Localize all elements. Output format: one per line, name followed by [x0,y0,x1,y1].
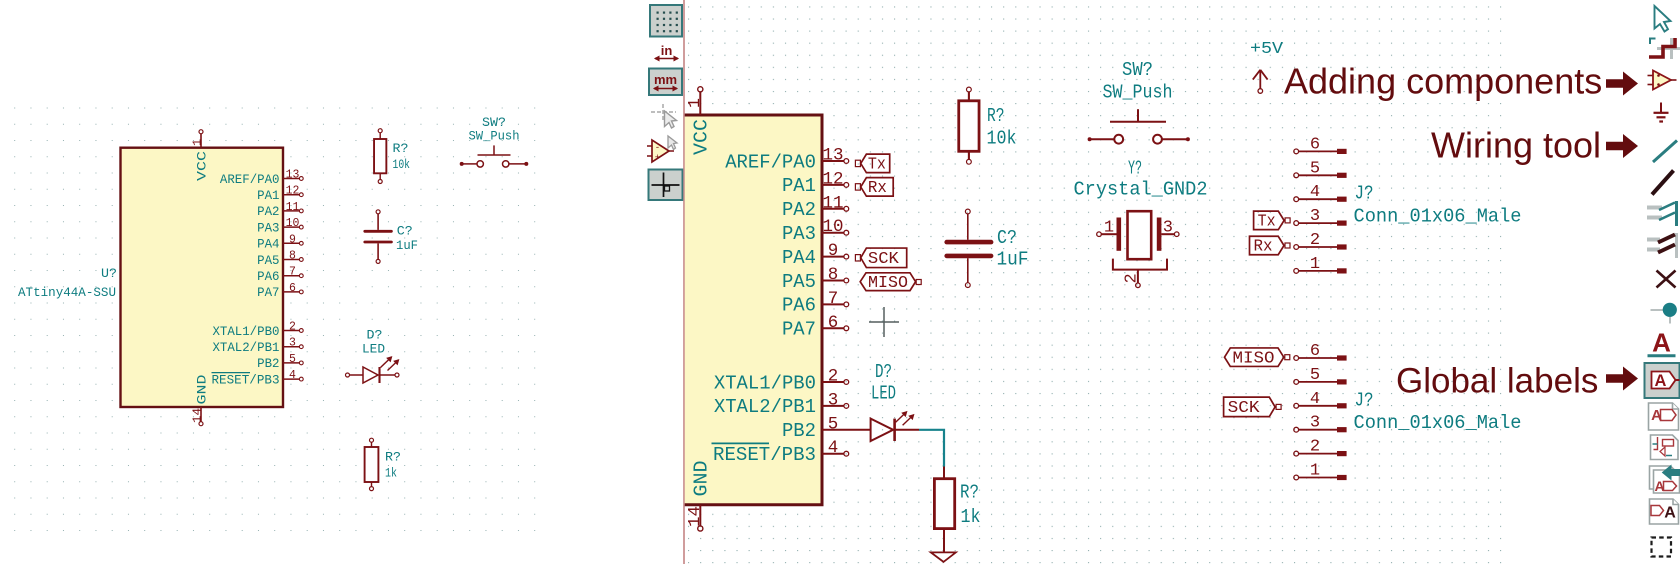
svg-text:Conn_01x06_Male: Conn_01x06_Male [1354,412,1522,434]
svg-text:10k: 10k [393,157,411,172]
resistor R? 1k body (right view) [934,479,954,529]
svg-text:5: 5 [1310,366,1320,385]
global label Tx (at U? pin 13) [855,160,860,166]
J? (top) pin 2 [1294,245,1299,250]
U? pin 4 RESET/PB3 (right view) [822,453,844,455]
svg-text:14: 14 [190,408,204,423]
svg-text:3: 3 [1310,207,1320,226]
global label SCK (at J? bottom pin 4) [1224,397,1276,417]
resistor R? 10k (right view) body [959,101,979,152]
IC U? ATtiny44A-SSU body (left view) [121,148,284,407]
toolbar icon: place bus [1652,171,1674,195]
svg-text:4: 4 [1310,183,1320,202]
svg-text:1: 1 [1104,219,1114,238]
toolbar icon: no connect flag [1657,271,1676,288]
svg-text:XTAL2/PB1: XTAL2/PB1 [714,396,816,418]
U? pin 12 PA1 (right view) [822,184,844,186]
LED D? triangle [871,419,894,441]
power symbol +5V [1258,89,1263,94]
svg-text:Wiring tool: Wiring tool [1431,125,1601,166]
crystal Y? Crystal_GND2 body [1128,211,1152,259]
U? pin 8 PA5 (right view) [822,280,844,282]
svg-text:R?: R? [960,482,979,504]
Y? pin 3 [1161,233,1174,235]
toolbar icon: place sheet pin [1650,499,1679,524]
SW? actuator [478,154,511,156]
svg-text:Tx: Tx [1258,213,1276,232]
capacitor C? 1uF (left view) bottom pin [377,243,379,259]
origin marker cross [869,321,899,323]
toolbar icon: cursor arrow [1655,6,1671,32]
svg-text:PA6: PA6 [782,295,816,317]
LED D? (left view) triangle [363,367,378,383]
toolbar icon: bus to bus entry [1647,238,1660,242]
svg-text:PA3: PA3 [257,220,279,235]
U? pin 10 PA3 (right view) [822,232,844,234]
svg-text:1: 1 [1310,462,1320,481]
Y? pin 2 [1137,270,1139,283]
svg-text:RESET/PB3: RESET/PB3 [713,444,816,466]
svg-text:SCK: SCK [1228,399,1261,418]
svg-text:8: 8 [289,250,296,263]
svg-text:3: 3 [1310,414,1320,433]
capacitor C? 1uF (right view) bottom pin [967,258,969,283]
svg-text:A: A [1664,505,1676,522]
R? 1k top pin (right view) [943,467,945,479]
global label Rx (at U? pin 12) [855,184,860,190]
resistor R? 10k (right view) bottom pin [968,151,970,159]
global label Rx (at J? top pin 2) [1250,236,1285,255]
svg-text:GND: GND [691,461,713,497]
svg-text:SW_Push: SW_Push [1103,82,1173,104]
LED D? anode lead [847,429,871,431]
svg-text:1k: 1k [385,466,397,481]
annotation arrow (adding components) [1606,72,1638,96]
svg-text:ATtiny44A-SSU: ATtiny44A-SSU [18,285,116,300]
U? pin 11 PA2 (left view) [283,210,300,212]
U? pin 7 PA6 (left view) [283,275,300,277]
svg-text:PA2: PA2 [257,204,279,219]
svg-text:D?: D? [875,361,892,383]
right canvas grid [686,0,1506,564]
toolbar icon: place symbol [1648,75,1654,77]
capacitor C? 1uF (left view) top pin [377,214,379,230]
svg-text:J?: J? [1355,390,1374,412]
svg-text:5: 5 [828,414,839,434]
svg-text:4: 4 [1310,390,1320,409]
svg-text:SCK: SCK [868,250,900,269]
svg-text:PA7: PA7 [782,319,816,341]
annotation arrow (global labels) [1606,367,1638,391]
J? (bottom) pin 3 [1294,427,1299,432]
svg-text:6: 6 [289,282,296,295]
toolbar icon: hierarchical label [1649,403,1679,430]
svg-text:4: 4 [828,438,839,458]
U? pin 1 VCC (right view) [698,87,703,92]
svg-text:VCC: VCC [195,151,210,181]
svg-text:Crystal_GND2: Crystal_GND2 [1074,179,1208,201]
svg-text:AREF/PA0: AREF/PA0 [220,172,280,187]
svg-text:PA7: PA7 [257,285,279,300]
resistor R? 10k (right view) top pin [968,92,970,101]
svg-text:6: 6 [828,313,839,333]
LED D? cathode bar [893,419,896,441]
svg-text:1k: 1k [961,506,981,528]
svg-text:2: 2 [1123,273,1142,283]
capacitor C? 1uF (right view) plates [947,240,991,245]
SW? right left contact [1114,135,1123,144]
svg-text:7: 7 [289,266,296,279]
U? pin 14 GND (left view) [199,422,203,426]
svg-text:2: 2 [289,321,296,334]
Y? right electrode [1157,218,1162,251]
U? pin 2 XTAL1/PB0 (left view) [283,330,300,332]
SW? left lead [460,162,463,165]
svg-text:-: - [655,143,660,153]
svg-text:1: 1 [1310,255,1320,274]
svg-text:PB2: PB2 [257,356,279,371]
J? (bottom) pin 5 [1294,380,1299,385]
J? (top) pin 4 [1294,197,1299,202]
svg-text:10: 10 [286,217,300,230]
svg-text:AREF/PA0: AREF/PA0 [725,151,816,173]
left schematic grid [6,100,536,538]
U? pin 11 PA2 (right view) [822,208,844,210]
svg-text:D?: D? [367,328,383,343]
svg-text:A: A [1655,372,1667,390]
U? pin 3 XTAL2/PB1 (left view) [283,346,300,348]
J? (bottom) pin 4 [1294,403,1299,408]
svg-text:2: 2 [828,367,839,387]
svg-text:1: 1 [190,139,204,146]
svg-text:GND: GND [195,374,210,404]
svg-text:in: in [661,43,673,58]
svg-text:Global labels: Global labels [1396,362,1598,401]
resistor R? 1k (left view) bottom pin [371,482,373,487]
canvas left border [683,0,685,564]
svg-text:PA4: PA4 [257,237,280,252]
toolbar icon: cursor shape [662,104,664,121]
svg-text:R?: R? [987,105,1005,127]
global label Tx (at J? top pin 3) [1254,211,1285,230]
svg-text:Y?: Y? [1128,158,1142,180]
svg-text:C?: C? [997,227,1017,249]
U? pin 6 PA7 (left view) [283,291,300,293]
SW? right actuator [1110,121,1166,123]
toolbar icon: import hierarchical sheet pin [1650,466,1676,489]
svg-text:U?: U? [101,266,117,281]
capacitor C? 1uF (right view) top pin [967,214,969,240]
toolbar icon: place wire [1653,141,1677,163]
svg-text:8: 8 [828,265,839,285]
resistor R? 1k (left view) top pin [371,442,373,447]
svg-text:+5V: +5V [1250,39,1283,58]
toolbar icon: wire to bus entry [1647,206,1662,210]
Y? case bracket [1113,259,1167,270]
svg-text:Tx: Tx [868,156,886,175]
svg-text:XTAL2/PB1: XTAL2/PB1 [212,340,279,355]
SW? left contact [477,161,483,167]
LED D? cathode lead [895,429,919,431]
U? pin 14 GND (right view) [698,526,703,531]
J? (top) pin 5 [1294,173,1299,178]
svg-text:SW?: SW? [1122,59,1153,81]
svg-text:PA4: PA4 [782,247,816,269]
svg-text:A: A [1652,328,1671,358]
U? pin 1 VCC (left view) [199,130,203,134]
svg-text:11: 11 [286,201,300,214]
SW? right right lead [1162,138,1188,140]
canvas left border overlay [683,0,685,564]
Y? pin 1 [1101,233,1116,235]
U? pin 13 AREF/PA0 (right view) [822,160,844,162]
Y? left electrode [1117,218,1122,251]
svg-text:12: 12 [286,185,300,198]
LED D? (left view) cathode bar [378,367,380,383]
svg-text:1uF: 1uF [396,238,418,253]
svg-text:MISO: MISO [1233,349,1275,368]
J? (top) pin 6 [1294,149,1299,154]
svg-text:R?: R? [385,450,401,465]
svg-text:13: 13 [286,169,300,182]
svg-text:PA2: PA2 [782,199,816,221]
svg-text:10k: 10k [987,128,1017,150]
svg-text:3: 3 [1163,219,1173,238]
toolbar button: global label (selected) [1645,363,1680,398]
toolbar icon: place symbol [647,145,652,147]
U? pin 4 RESET/PB3 (left view) [283,378,300,380]
SW? right lead [509,163,526,165]
svg-text:RESET/PB3: RESET/PB3 [212,372,280,387]
IC U? ATtiny44A-SSU body (right view) [684,115,822,505]
U? pin 8 PA5 (left view) [283,259,300,261]
J? (bottom) pin 1 [1294,475,1299,480]
svg-text:3: 3 [828,390,839,410]
U? pin 9 PA4 (right view) [822,256,844,258]
toolbar button: grid [650,5,682,37]
svg-text:9: 9 [289,233,296,246]
svg-text:3: 3 [289,337,296,350]
U? pin 2 XTAL1/PB0 (right view) [822,381,844,383]
svg-text:XTAL1/PB0: XTAL1/PB0 [714,372,816,394]
ground symbol GND [931,552,956,562]
svg-text:2: 2 [1310,438,1320,457]
U? pin 6 PA7 (right view) [822,327,844,329]
svg-text:VCC: VCC [691,119,713,155]
svg-text:13: 13 [822,146,843,166]
svg-text:PA6: PA6 [257,269,279,284]
J? (bottom) pin 2 [1294,451,1299,456]
toolbar icon: selection rectangle [1652,538,1672,557]
svg-text:PA1: PA1 [782,175,816,197]
svg-text:XTAL1/PB0: XTAL1/PB0 [212,324,279,339]
resistor R? 10k (left view) body [374,139,386,173]
svg-text:Adding components: Adding components [1284,61,1602,102]
svg-text:PA5: PA5 [782,271,816,293]
global label MISO (at U? pin 8) [860,273,915,291]
svg-text:Rx: Rx [868,179,887,198]
svg-text:1uF: 1uF [997,249,1029,271]
svg-text:J?: J? [1355,183,1374,205]
LED D? (left view) anode lead [346,373,350,377]
svg-text:PA3: PA3 [782,223,816,245]
resistor R? 10k (left view) bottom pin [379,173,381,179]
capacitor C? 1uF (left view) plates [365,230,392,233]
svg-text:PA1: PA1 [257,188,280,203]
U? pin 5 PB2 (right view) [822,429,847,431]
U? pin 12 PA1 (left view) [283,194,300,196]
toolbar button: crosshair [649,170,683,201]
J? (top) pin 1 [1294,269,1299,274]
annotation arrow (wiring tool) [1606,134,1638,158]
resistor R? 1k (left view) body [365,447,379,482]
svg-text:SW_Push: SW_Push [469,129,520,144]
U? pin 13 AREF/PA0 (left view) [283,178,300,180]
svg-text:Rx: Rx [1254,238,1273,257]
svg-text:5: 5 [1310,159,1320,178]
svg-text:6: 6 [1310,135,1320,154]
svg-text:MISO: MISO [868,274,908,293]
toolbar icon: place hierarchical sheet [1651,435,1679,460]
LED D? emission arrows [896,412,907,423]
U? pin 5 PB2 (left view) [283,362,300,364]
svg-text:11: 11 [822,193,843,213]
svg-text:C?: C? [397,224,413,239]
U? pin 3 XTAL2/PB1 (right view) [822,405,844,407]
global label SCK (at U? pin 9) [855,255,860,261]
toolbar icon: place power port [1660,103,1662,113]
svg-text:mm: mm [654,72,677,87]
wire from D? cathode to R? 1k [919,430,944,467]
svg-text:LED: LED [871,383,896,405]
svg-text:5: 5 [289,353,296,366]
svg-text:Conn_01x06_Male: Conn_01x06_Male [1354,206,1522,228]
toolbar button: mm [649,69,682,96]
SW? right right contact [1153,135,1162,144]
svg-text:12: 12 [822,169,843,189]
LED D? (left view) emission arrows [381,357,392,368]
svg-text:LED: LED [362,342,385,357]
svg-text:7: 7 [828,289,839,309]
svg-text:PA5: PA5 [257,253,279,268]
svg-text:R?: R? [393,141,409,156]
svg-text:14: 14 [685,506,704,527]
SW? right left lead [1088,138,1091,141]
svg-text:+: + [655,153,660,163]
SW? right contact [503,161,509,167]
LED D? (left view) cathode lead [380,374,396,376]
svg-text:2: 2 [1310,231,1320,250]
svg-text:1: 1 [685,98,704,108]
R? 1k bottom pin (right view) [943,529,945,553]
svg-text:4: 4 [289,369,296,382]
resistor R? 10k (left view) top pin [379,133,381,139]
svg-text:9: 9 [828,241,839,261]
svg-text:6: 6 [1310,342,1320,361]
toolbar icon: highlight net [1670,38,1673,59]
svg-text:10: 10 [822,217,843,237]
J? (bottom) pin 6 [1294,356,1299,361]
toolbar icon: junction [1651,309,1666,311]
U? pin 9 PA4 (left view) [283,242,300,244]
U? pin 7 PA6 (right view) [822,303,844,305]
svg-text:PB2: PB2 [782,420,816,442]
global label MISO (at J? bottom pin 6) [1225,348,1284,367]
J? (top) pin 3 [1294,221,1299,226]
U? pin 10 PA3 (left view) [283,226,300,228]
